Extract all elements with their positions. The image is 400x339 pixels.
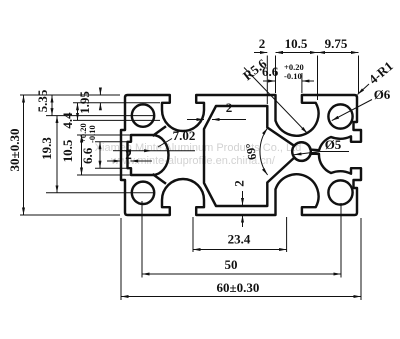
dim 1.95	[99, 88, 101, 95]
svg-text:2: 2	[232, 180, 247, 187]
svg-text:69°: 69°	[243, 142, 260, 161]
left enclosed bullet cavity with neck	[128, 135, 169, 175]
svg-text:4.4: 4.4	[60, 112, 75, 129]
hole top-left	[132, 104, 154, 126]
svg-text:60±0.30: 60±0.30	[217, 280, 260, 295]
svg-text:7.02: 7.02	[173, 128, 196, 143]
svg-text:30±0.30: 30±0.30	[7, 129, 22, 172]
dim 10.5 left	[77, 134, 131, 136]
profile outer outline with slots	[121, 95, 361, 215]
text 6.6 left	[78, 123, 97, 164]
hole bottom-left	[132, 182, 154, 204]
angle 69 arc	[260, 128, 268, 175]
svg-text:10.5: 10.5	[285, 36, 308, 51]
dim 60	[120, 218, 122, 300]
top dim 10.5	[276, 52, 318, 54]
svg-text:10.5: 10.5	[60, 139, 75, 162]
svg-text:19.3: 19.3	[39, 137, 54, 160]
svg-text:5.35: 5.35	[35, 89, 50, 112]
hole bottom-right	[328, 180, 352, 204]
leader dia6	[332, 100, 372, 121]
dim 6.6 left	[95, 141, 129, 143]
svg-text:2: 2	[259, 36, 266, 51]
dim 30	[20, 94, 120, 96]
dim 23.4	[192, 217, 194, 252]
svg-text:Ø5: Ø5	[325, 137, 342, 152]
svg-text:Ø6: Ø6	[374, 87, 391, 102]
svg-text:2: 2	[226, 100, 233, 115]
dim 5.35	[51, 95, 53, 116]
svg-text:4-R1: 4-R1	[366, 58, 396, 87]
svg-text:2: 2	[125, 147, 132, 162]
svg-text:-0.10: -0.10	[87, 125, 97, 143]
leader 4-R1	[358, 84, 370, 95]
dim 6.6 top opening	[301, 73, 303, 93]
top dim 2	[254, 52, 267, 54]
dim 2 left wall	[107, 160, 121, 162]
svg-text:1.95: 1.95	[77, 91, 92, 114]
leader R5.6	[244, 68, 308, 134]
pocket chamfer lower-left	[153, 174, 167, 184]
hole top-right	[328, 104, 352, 128]
dim 2 wall bottom middle	[242, 191, 244, 206]
dim 2 wall top middle	[187, 119, 204, 121]
dim 7.02	[124, 150, 152, 152]
leader dia5	[294, 152, 349, 155]
top dim 9.75	[318, 52, 359, 54]
dimension texts	[7, 36, 396, 295]
dim 50	[141, 201, 143, 278]
dim 19.3	[46, 115, 155, 117]
svg-text:6.6: 6.6	[80, 147, 95, 164]
svg-text:50: 50	[225, 257, 238, 272]
pocket chamfer upper-left	[153, 126, 167, 136]
dim 4.4	[73, 102, 160, 104]
svg-text:23.4: 23.4	[228, 232, 251, 247]
center knob circle	[292, 142, 311, 161]
svg-text:9.75: 9.75	[325, 36, 348, 51]
top dim extension lines	[266, 56, 268, 105]
svg-text:-0.10: -0.10	[284, 71, 302, 81]
dimension graphics	[20, 53, 372, 301]
